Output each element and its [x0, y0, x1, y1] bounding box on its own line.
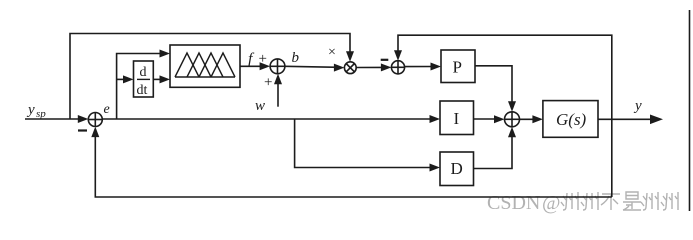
block G(s)	[543, 101, 598, 138]
wire e main line to I	[102, 118, 435, 120]
wire top-left feedforward horizontal	[70, 34, 350, 120]
arrowhead into d/dt	[123, 75, 134, 83]
svg-text:+: +	[259, 51, 267, 67]
arrowhead down into S2	[394, 50, 402, 61]
arrowhead into fuzzy top input	[160, 50, 171, 58]
wire I output	[474, 118, 500, 120]
svg-text:I: I	[454, 109, 460, 128]
summing junction Sw (f+w)	[270, 59, 285, 74]
svg-text:CSDN: CSDN	[487, 192, 540, 214]
glyph zhou3	[641, 192, 658, 210]
wire d/dt to fuzzy	[153, 78, 164, 80]
arrowhead into G(s)	[532, 115, 543, 123]
fuzzy membership triangles	[175, 53, 235, 77]
svg-text:D: D	[451, 159, 463, 178]
glyph zhou1	[561, 192, 578, 210]
glyph bu	[601, 194, 620, 210]
wire top-right feedback horizontal	[398, 35, 612, 197]
wire sum2 to P	[405, 66, 436, 68]
wire branch to d/dt	[117, 78, 128, 80]
wire multiplier to sum2	[356, 66, 386, 68]
block I	[440, 101, 474, 135]
block P	[441, 50, 475, 83]
svg-text:+: +	[264, 75, 272, 91]
wire sum3 to G(s)	[520, 118, 538, 120]
d/dt box	[134, 61, 154, 97]
summing junction S3	[505, 112, 520, 127]
arrowhead up into S1 from feedback	[91, 127, 99, 138]
wire D output	[474, 132, 513, 169]
multiplier M	[344, 62, 356, 74]
glyph zhou4	[661, 192, 678, 210]
svg-text:×: ×	[328, 45, 336, 60]
minus sign at S1	[78, 129, 87, 131]
svg-text:b: b	[292, 50, 300, 66]
wire P output	[475, 66, 512, 107]
wire output y	[598, 118, 652, 120]
wire e branch down to D	[295, 119, 435, 168]
wire w input	[277, 79, 279, 107]
arrowhead into P	[431, 63, 442, 71]
svg-text:P: P	[453, 58, 462, 77]
summing junction S1	[88, 113, 102, 127]
svg-text:w: w	[255, 98, 265, 114]
arrowhead d/dt into fuzzy	[160, 75, 171, 83]
wire e branch up	[117, 54, 164, 120]
arrowhead into S1	[78, 115, 89, 123]
fuzzy controller box	[170, 45, 240, 87]
svg-text:y: y	[26, 102, 35, 118]
svg-text:y: y	[633, 98, 642, 114]
arrowhead P down into S3	[508, 101, 516, 112]
svg-text:e: e	[104, 102, 110, 117]
svg-text:d: d	[140, 65, 147, 80]
arrowhead w up into Sw	[274, 74, 282, 85]
arrowhead b into multiplier	[334, 64, 345, 72]
wire y_sp input	[25, 118, 82, 120]
svg-text:sp: sp	[36, 108, 46, 120]
glyph zhou2	[581, 192, 598, 210]
arrowhead into D	[430, 164, 441, 172]
glyph shi	[623, 192, 641, 210]
wire bottom feedback	[95, 132, 612, 197]
wire fuzzy f output	[240, 65, 265, 67]
block D	[440, 152, 474, 186]
label d/dt	[137, 65, 148, 98]
svg-text:dt: dt	[137, 83, 148, 98]
arrowhead into I	[430, 115, 441, 123]
arrowhead down into multiplier	[346, 51, 354, 62]
svg-text:@: @	[542, 192, 560, 214]
arrowhead into S2	[381, 63, 392, 71]
arrowhead f into Sw	[260, 62, 271, 70]
right page border line	[689, 10, 691, 211]
arrowhead D up into S3	[508, 127, 516, 138]
svg-text:f: f	[248, 51, 255, 68]
watermark CJK glyphs approximated	[561, 192, 678, 210]
wire b to multiplier	[285, 66, 339, 67]
arrowhead output y	[650, 115, 663, 125]
svg-text:G(s): G(s)	[556, 110, 587, 129]
arrowhead I into S3	[494, 115, 505, 123]
minus sign at S2	[381, 59, 389, 61]
summing junction S2	[391, 61, 404, 74]
